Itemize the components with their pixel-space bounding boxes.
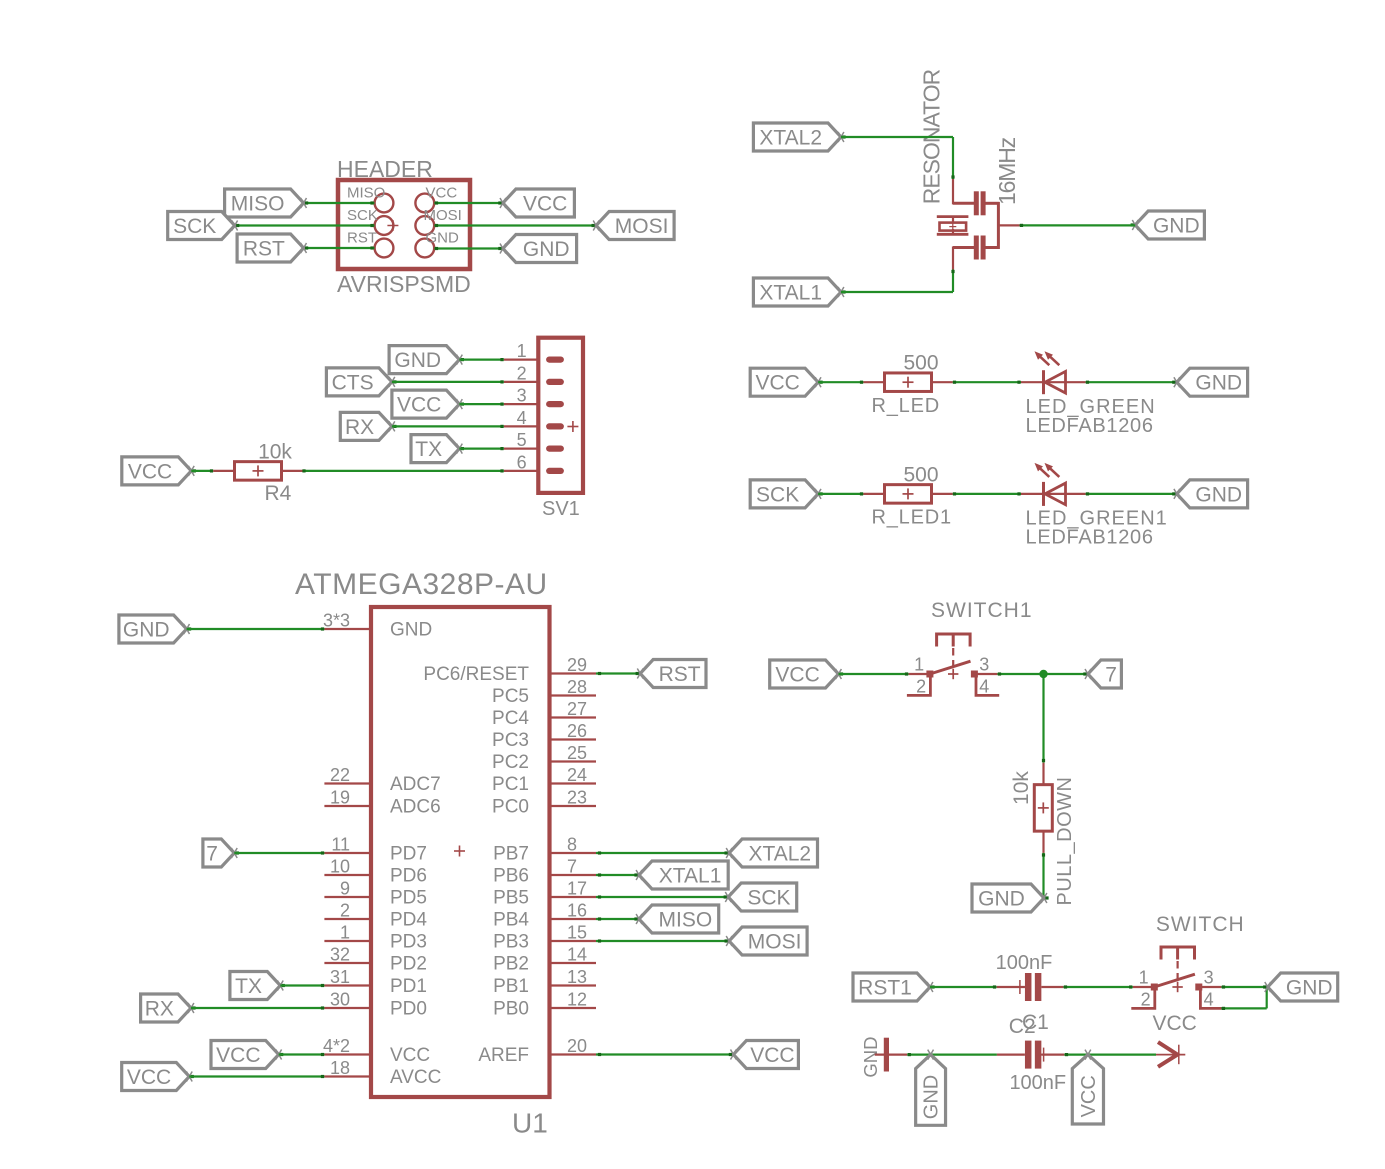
- svg-text:24: 24: [567, 765, 587, 785]
- svg-text:SCK: SCK: [347, 207, 378, 224]
- svg-text:PB2: PB2: [493, 954, 529, 975]
- svg-text:GND: GND: [390, 620, 432, 641]
- svg-text:PC5: PC5: [492, 686, 529, 707]
- svg-text:32: 32: [330, 945, 350, 965]
- svg-text:SV1: SV1: [542, 498, 580, 520]
- svg-text:PD0: PD0: [390, 999, 427, 1020]
- svg-text:AVCC: AVCC: [390, 1067, 441, 1088]
- svg-text:R_LED1: R_LED1: [872, 507, 952, 529]
- svg-text:4: 4: [979, 677, 989, 697]
- svg-text:4*2: 4*2: [323, 1036, 350, 1056]
- svg-text:VCC: VCC: [523, 192, 567, 215]
- svg-text:VCC: VCC: [426, 185, 458, 202]
- svg-text:MISO: MISO: [347, 185, 385, 202]
- svg-text:SCK: SCK: [756, 483, 799, 506]
- svg-text:19: 19: [330, 788, 350, 808]
- svg-text:6: 6: [517, 452, 527, 472]
- svg-text:3: 3: [1204, 968, 1214, 988]
- svg-text:12: 12: [567, 990, 587, 1010]
- svg-text:PB1: PB1: [493, 976, 529, 997]
- svg-text:1: 1: [340, 923, 350, 943]
- svg-text:VCC: VCC: [127, 1066, 171, 1089]
- svg-text:PC3: PC3: [492, 730, 529, 751]
- svg-text:RST: RST: [347, 230, 377, 247]
- svg-text:PB5: PB5: [493, 888, 529, 909]
- svg-text:GND: GND: [1153, 214, 1200, 237]
- svg-text:VCC: VCC: [755, 372, 799, 395]
- svg-text:RST1: RST1: [858, 976, 912, 999]
- svg-text:PB4: PB4: [493, 910, 529, 931]
- svg-text:30: 30: [330, 990, 350, 1010]
- svg-text:7: 7: [1105, 663, 1117, 686]
- svg-text:MOSI: MOSI: [615, 215, 669, 238]
- svg-text:RST: RST: [659, 663, 701, 686]
- svg-text:3: 3: [979, 655, 989, 675]
- svg-text:11: 11: [331, 835, 350, 855]
- svg-text:PB7: PB7: [493, 844, 529, 865]
- svg-text:2: 2: [1141, 990, 1151, 1010]
- svg-text:VCC: VCC: [128, 460, 172, 483]
- svg-text:VCC: VCC: [1153, 1012, 1197, 1035]
- svg-text:7: 7: [206, 842, 218, 865]
- svg-text:VCC: VCC: [775, 663, 819, 686]
- svg-text:R4: R4: [265, 482, 292, 505]
- svg-text:15: 15: [567, 923, 587, 943]
- svg-text:ADC7: ADC7: [390, 774, 441, 795]
- svg-text:23: 23: [567, 788, 587, 808]
- svg-text:RX: RX: [345, 416, 374, 439]
- svg-text:GND: GND: [1195, 483, 1242, 506]
- svg-text:SWITCH1: SWITCH1: [931, 599, 1033, 622]
- svg-text:25: 25: [567, 743, 587, 763]
- svg-text:C2: C2: [1009, 1015, 1036, 1038]
- svg-text:RST: RST: [243, 237, 285, 260]
- svg-text:GND: GND: [921, 1075, 943, 1119]
- svg-text:4: 4: [1204, 990, 1214, 1010]
- svg-text:18: 18: [330, 1058, 350, 1078]
- svg-text:8: 8: [567, 835, 577, 855]
- svg-text:MOSI: MOSI: [748, 930, 802, 953]
- svg-text:13: 13: [567, 967, 587, 987]
- svg-text:PB6: PB6: [493, 866, 529, 887]
- svg-text:PD6: PD6: [390, 866, 427, 887]
- svg-text:MISO: MISO: [231, 192, 285, 215]
- svg-text:1: 1: [1139, 968, 1149, 988]
- svg-text:XTAL1: XTAL1: [659, 864, 722, 887]
- svg-text:31: 31: [330, 967, 350, 987]
- svg-text:1: 1: [914, 655, 924, 675]
- svg-text:2: 2: [916, 677, 926, 697]
- svg-text:MOSI: MOSI: [424, 207, 462, 224]
- svg-text:7: 7: [567, 857, 577, 877]
- svg-text:28: 28: [567, 677, 587, 697]
- svg-text:PD2: PD2: [390, 954, 427, 975]
- svg-text:10: 10: [330, 857, 350, 877]
- svg-text:ATMEGA328P-AU: ATMEGA328P-AU: [295, 568, 548, 601]
- svg-text:GND: GND: [523, 238, 570, 261]
- svg-text:ADC6: ADC6: [390, 797, 441, 818]
- svg-text:500: 500: [903, 463, 938, 486]
- svg-text:20: 20: [567, 1036, 587, 1056]
- svg-text:XTAL2: XTAL2: [748, 842, 811, 865]
- svg-text:22: 22: [330, 765, 350, 785]
- svg-text:PD1: PD1: [390, 976, 427, 997]
- svg-text:SCK: SCK: [173, 215, 216, 238]
- svg-text:27: 27: [567, 699, 587, 719]
- svg-text:XTAL1: XTAL1: [759, 281, 822, 304]
- svg-text:PB3: PB3: [493, 932, 529, 953]
- svg-text:XTAL2: XTAL2: [759, 126, 822, 149]
- svg-text:GND: GND: [1286, 976, 1333, 999]
- svg-text:VCC: VCC: [1078, 1075, 1100, 1117]
- svg-text:16: 16: [567, 901, 587, 921]
- svg-text:GND: GND: [394, 349, 441, 372]
- svg-text:SCK: SCK: [747, 886, 790, 909]
- svg-text:U1: U1: [512, 1108, 548, 1139]
- svg-text:16MHz: 16MHz: [994, 137, 1020, 205]
- svg-text:RX: RX: [145, 997, 174, 1020]
- svg-text:GND: GND: [978, 887, 1025, 910]
- svg-text:10k: 10k: [1010, 771, 1033, 805]
- svg-text:9: 9: [340, 879, 350, 899]
- svg-text:PD4: PD4: [390, 910, 427, 931]
- svg-text:LEDFAB1206: LEDFAB1206: [1026, 527, 1154, 549]
- svg-text:LEDFAB1206: LEDFAB1206: [1026, 415, 1154, 437]
- svg-text:PC2: PC2: [492, 752, 529, 773]
- svg-text:26: 26: [567, 721, 587, 741]
- svg-text:100nF: 100nF: [996, 952, 1053, 974]
- svg-text:PC1: PC1: [492, 774, 529, 795]
- svg-text:GND: GND: [1195, 372, 1242, 395]
- svg-text:MISO: MISO: [659, 908, 713, 931]
- svg-text:AREF: AREF: [478, 1045, 529, 1066]
- svg-text:PULL_DOWN: PULL_DOWN: [1054, 777, 1076, 906]
- svg-text:TX: TX: [415, 438, 442, 461]
- svg-text:500: 500: [903, 352, 938, 375]
- svg-text:PD3: PD3: [390, 932, 427, 953]
- svg-text:GND: GND: [426, 230, 460, 247]
- svg-text:TX: TX: [235, 975, 262, 998]
- svg-text:PC0: PC0: [492, 797, 529, 818]
- svg-text:VCC: VCC: [397, 394, 441, 417]
- svg-text:29: 29: [567, 655, 587, 675]
- svg-text:14: 14: [567, 945, 587, 965]
- svg-text:VCC: VCC: [390, 1045, 430, 1066]
- svg-text:5: 5: [517, 430, 527, 450]
- svg-text:GND: GND: [860, 1037, 881, 1078]
- svg-text:2: 2: [517, 363, 527, 383]
- svg-text:VCC: VCC: [216, 1044, 260, 1067]
- svg-text:PC4: PC4: [492, 708, 529, 729]
- svg-text:1: 1: [517, 341, 527, 361]
- svg-text:AVRISPSMD: AVRISPSMD: [337, 271, 471, 297]
- svg-text:SWITCH: SWITCH: [1156, 913, 1245, 936]
- svg-text:4: 4: [517, 408, 527, 428]
- svg-text:3: 3: [517, 386, 527, 406]
- svg-text:PD5: PD5: [390, 888, 427, 909]
- svg-text:2: 2: [340, 901, 350, 921]
- svg-text:PD7: PD7: [390, 844, 427, 865]
- svg-text:VCC: VCC: [750, 1044, 794, 1067]
- svg-text:10k: 10k: [258, 441, 292, 464]
- svg-text:R_LED: R_LED: [872, 395, 940, 417]
- svg-text:17: 17: [567, 879, 587, 899]
- svg-text:PB0: PB0: [493, 999, 529, 1020]
- svg-text:HEADER: HEADER: [337, 156, 433, 182]
- svg-text:GND: GND: [123, 618, 170, 641]
- svg-text:3*3: 3*3: [323, 611, 350, 631]
- svg-text:PC6/RESET: PC6/RESET: [423, 664, 529, 685]
- svg-text:100nF: 100nF: [1009, 1072, 1066, 1094]
- svg-text:CTS: CTS: [332, 371, 374, 394]
